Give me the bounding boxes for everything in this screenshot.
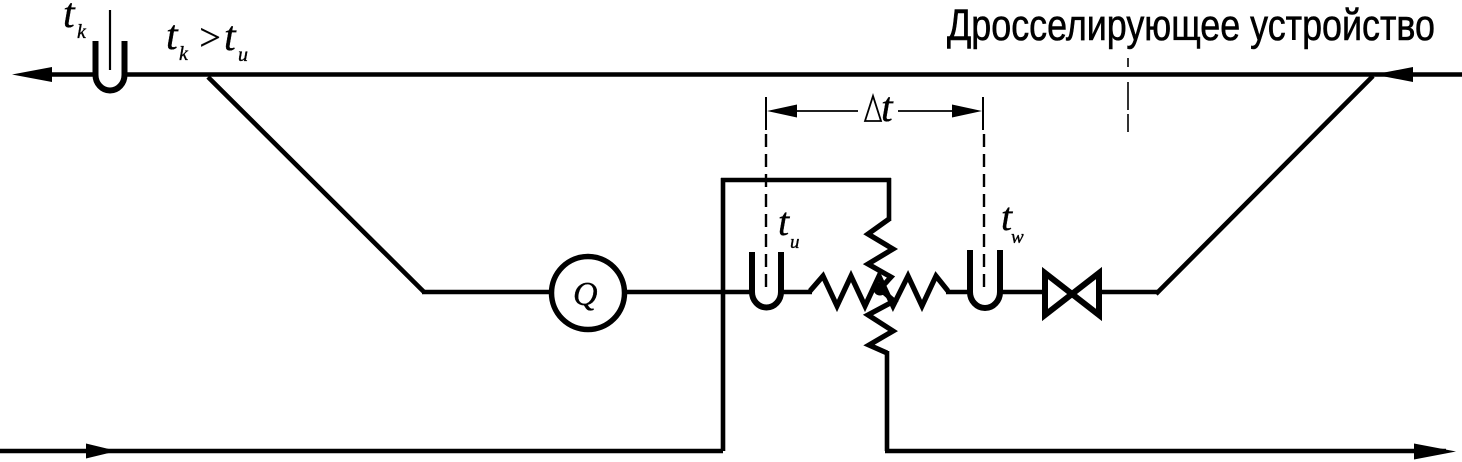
thermometer well t_k — [96, 41, 125, 90]
wire: top supply pipe left segment — [48, 72, 94, 77]
arrow: bottom pipe flow arrow (pointing right) — [86, 444, 117, 459]
thermometer well t_u — [752, 252, 781, 308]
arrow: bottom pipe end arrow (pointing right) — [1414, 444, 1456, 460]
wire: metering line from zigzag to well t_w — [946, 290, 968, 295]
wire: right vertical drop from bypass loop top — [887, 178, 892, 221]
heater horizontal zigzag (resistor-like) — [810, 276, 948, 306]
label inequality t_k > t_u — [166, 13, 248, 66]
wire: bottom return pipe left segment — [0, 449, 723, 454]
wire: left diagonal pipe from top line down to metering line — [208, 77, 424, 292]
wire: right diagonal pipe up to top line — [1156, 76, 1373, 294]
valve (bowtie) — [1045, 273, 1099, 315]
svg-text:t: t — [778, 199, 790, 244]
svg-text:u: u — [790, 232, 800, 253]
dimension Delta-t: left arrow — [767, 105, 797, 118]
heater vertical zigzag upper half — [868, 219, 893, 289]
label t_k — [63, 0, 87, 43]
svg-text:w: w — [1011, 227, 1024, 248]
dimension Delta-t: right arrow — [952, 105, 982, 118]
dimension label Delta (outline triangle) — [865, 96, 881, 121]
wire: top supply pipe main segment — [126, 72, 1462, 77]
svg-text:t: t — [881, 85, 894, 131]
svg-text:Q: Q — [573, 276, 598, 313]
svg-text:u: u — [238, 44, 248, 66]
flowmeter Q — [552, 257, 625, 330]
label t_w — [1001, 194, 1024, 248]
wire: vertical pipe from zigzag down to bottom return pipe — [885, 351, 890, 451]
wire: metering line from well t_w to valve — [1002, 290, 1048, 295]
svg-text:>: > — [197, 17, 223, 59]
dashed thermometer axis through t_u — [765, 134, 767, 288]
label t_u — [778, 199, 800, 253]
arrow: top pipe flow arrow (left end, pointing left) — [12, 67, 52, 82]
svg-text:k: k — [77, 21, 87, 43]
dimension Delta-t: left line — [795, 110, 858, 112]
svg-text:t: t — [63, 0, 76, 37]
svg-text:Дросселирующее устройство: Дросселирующее устройство — [947, 1, 1435, 50]
svg-text:t: t — [166, 13, 179, 59]
wire: metering line from flowmeter to well t_u — [624, 290, 750, 295]
dimension Delta-t: right line — [898, 110, 955, 112]
wire: top side of bypass loop — [721, 178, 891, 183]
dimension Delta-t: right tick — [982, 97, 984, 130]
arrow: top pipe flow arrow (right, pointing left) — [1374, 67, 1413, 82]
junction dot at zigzag crossing — [874, 283, 887, 296]
heater vertical zigzag lower half — [868, 289, 894, 353]
dashed thermometer axis through t_w — [983, 134, 985, 294]
wire: metering line from valve to right diagonal — [1098, 290, 1158, 295]
leader line from label to top pipe (dashed) — [1127, 58, 1129, 67]
wire: bottom return pipe right segment — [885, 449, 1446, 454]
thermometer stem t_k — [109, 10, 111, 70]
dimension Delta-t: left tick — [765, 97, 767, 130]
wire: metering line from diagonal to flowmeter — [422, 290, 552, 295]
thermometer well t_w — [970, 250, 1000, 308]
svg-text:k: k — [179, 43, 189, 65]
wire: left riser of bypass loop (x=723) — [721, 178, 726, 451]
svg-text:t: t — [224, 14, 237, 60]
wire: metering line from well t_u to heater zigzag — [782, 290, 812, 295]
